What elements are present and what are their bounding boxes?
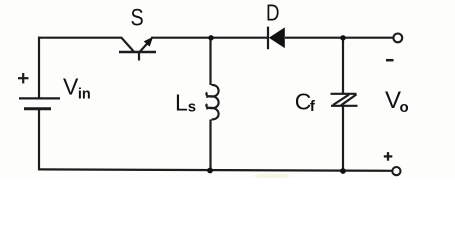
- transistor switch S base bar: [119, 51, 156, 53]
- transistor switch S arrowhead: [144, 37, 153, 47]
- output terminal circle bottom: [392, 167, 400, 175]
- capacitor Cf top lead: [342, 38, 344, 94]
- wire bottom rail: [38, 169, 393, 170]
- junction dot top capacitor: [340, 35, 345, 40]
- svg-text:D: D: [266, 0, 280, 26]
- svg-text:Cf: Cf: [295, 89, 316, 116]
- inductor Ls top lead: [209, 38, 211, 85]
- output plus sign vertical: [387, 152, 389, 161]
- wire left vertical lower: [38, 109, 40, 170]
- capacitor Cf diagonal 2: [341, 94, 357, 105]
- capacitor Cf diagonal 1: [333, 95, 349, 105]
- inductor Ls coil: [206, 85, 218, 119]
- output terminal circle top: [393, 34, 402, 43]
- battery Vin bottom plate: [24, 107, 51, 110]
- diode D cathode bar: [267, 27, 269, 50]
- battery plus sign horizontal: [18, 77, 29, 79]
- transistor switch S diagonal left: [121, 37, 134, 52]
- output minus sign: [386, 59, 394, 62]
- transistor switch S base stub: [138, 52, 140, 61]
- wire top right segment: [285, 37, 393, 39]
- diode D triangle: [269, 27, 285, 48]
- battery Vin top plate: [19, 97, 60, 99]
- wire top middle segment: [151, 37, 268, 39]
- capacitor Cf bottom plate: [331, 105, 358, 107]
- transistor switch S arrow diagonal: [140, 41, 150, 52]
- wire top-left segment: [38, 37, 122, 39]
- svg-text:Vin: Vin: [63, 73, 91, 102]
- junction dot bottom capacitor: [340, 168, 346, 174]
- svg-text:Ls: Ls: [175, 90, 196, 116]
- wire left vertical upper: [38, 37, 40, 99]
- inductor Ls bottom lead: [209, 120, 211, 171]
- capacitor Cf bottom lead: [342, 106, 344, 171]
- capacitor Cf top plate: [331, 93, 357, 95]
- output plus sign horizontal: [384, 155, 393, 157]
- battery plus sign vertical: [22, 73, 24, 83]
- svg-text:S: S: [131, 5, 144, 32]
- junction dot top inductor: [208, 35, 213, 40]
- junction dot bottom inductor: [207, 168, 213, 174]
- faint watermark remnant: [254, 173, 290, 178]
- svg-text:Vo: Vo: [385, 87, 409, 116]
